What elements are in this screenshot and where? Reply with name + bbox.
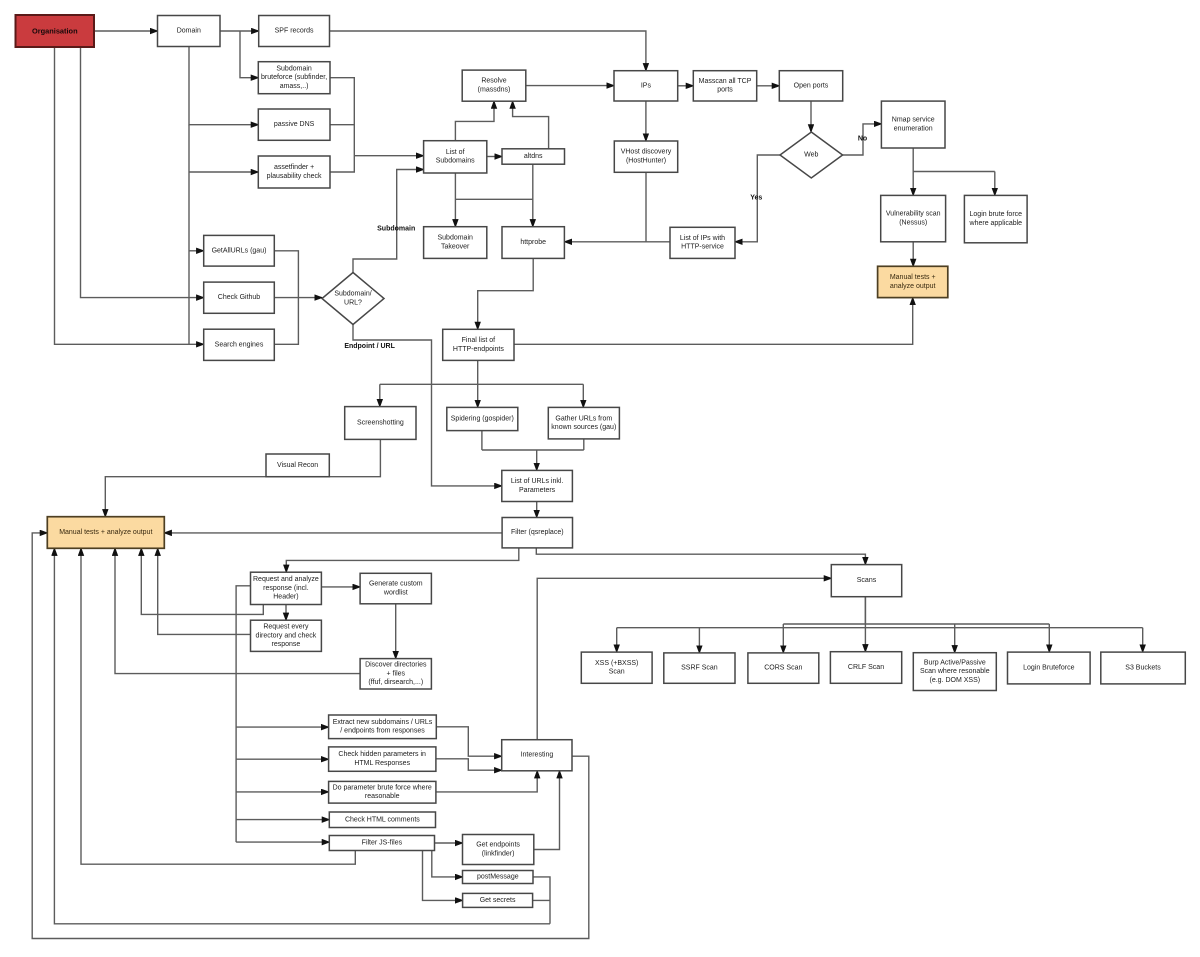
- edge Organisation to Check Github: [81, 47, 204, 298]
- box Discover directories: [360, 659, 431, 689]
- svg-text:Filter JS-files: Filter JS-files: [362, 840, 403, 847]
- box Check HTML comments: [329, 812, 435, 828]
- box Spidering: [447, 407, 518, 430]
- svg-text:Interesting: Interesting: [521, 752, 554, 759]
- wire Nmap split horizontal: [913, 171, 995, 173]
- edge IPs to VHost discovery: [645, 101, 647, 141]
- edge Scans to CRLF: [864, 628, 866, 652]
- box SSRF Scan: [664, 653, 735, 683]
- wire Final list down: [477, 360, 479, 384]
- edge Request every directory to Manual tests left: [158, 548, 251, 634]
- svg-text:Vulnerability scan: Vulnerability scan: [886, 211, 941, 218]
- box Request every directory: [251, 620, 322, 651]
- box Open ports: [779, 71, 842, 101]
- box Subdomain bruteforce: [258, 62, 330, 94]
- edge Interesting to Scans: [537, 578, 831, 739]
- edge Domain to GetAllURLs: [189, 250, 204, 252]
- box Filter JS-files: [329, 836, 434, 851]
- wire Final list bracket: [380, 383, 584, 385]
- svg-text:GetAllURLs (gau): GetAllURLs (gau): [212, 247, 267, 254]
- edge Subdomain branch to List of Subdomains: [353, 170, 424, 273]
- edge Do parameter to Interesting: [436, 771, 537, 792]
- svg-text:Organisation: Organisation: [32, 27, 78, 36]
- svg-text:Subdomains: Subdomains: [436, 158, 475, 165]
- svg-text:Visual Recon: Visual Recon: [277, 462, 318, 469]
- svg-text:Domain: Domain: [177, 28, 201, 35]
- svg-text:Manual tests +: Manual tests +: [890, 274, 936, 281]
- svg-text:Spidering (gospider): Spidering (gospider): [451, 416, 514, 423]
- edge Request-analyze to Generate wordlist: [321, 586, 360, 588]
- box Gather URLs: [548, 407, 619, 439]
- edge fan to Extract new subdomains: [236, 726, 329, 728]
- svg-text:HTTP-endpoints: HTTP-endpoints: [453, 346, 504, 353]
- svg-text:+ files: + files: [387, 670, 406, 677]
- svg-text:(ffuf, dirsearch,...): (ffuf, dirsearch,...): [368, 679, 423, 686]
- svg-text:Request every: Request every: [263, 624, 309, 631]
- box passive DNS: [258, 109, 330, 140]
- svg-text:SSRF Scan: SSRF Scan: [681, 665, 718, 672]
- edge Subdomain/URL to List of URLs (Endpoint): [353, 325, 502, 486]
- wire Gather join: [583, 439, 585, 450]
- edge Request-analyze to Manual tests left: [141, 548, 263, 614]
- edge altdns to httprobe: [532, 164, 534, 227]
- edge Discover directories to Manual tests left: [115, 548, 360, 673]
- box Subdomain Takeover: [424, 227, 487, 259]
- svg-text:Check Github: Check Github: [218, 294, 261, 301]
- wire List of Subdomains to altdns-line join: [455, 198, 532, 200]
- edge fan to Check HTML comments: [236, 819, 329, 821]
- svg-text:(Nessus): (Nessus): [899, 220, 927, 227]
- svg-text:where applicable: where applicable: [969, 220, 1023, 227]
- svg-text:URL?: URL?: [344, 299, 362, 306]
- svg-text:response: response: [272, 641, 301, 648]
- box Get endpoints linkfinder: [463, 835, 534, 865]
- svg-text:Check HTML comments: Check HTML comments: [345, 816, 420, 823]
- svg-text:amass,..): amass,..): [280, 83, 309, 90]
- svg-text:List of IPs with: List of IPs with: [680, 235, 725, 242]
- svg-text:Discover directories: Discover directories: [365, 662, 427, 669]
- wire Scans upper link: [864, 597, 866, 624]
- edge Resolve to IPs: [526, 85, 614, 87]
- svg-text:(e.g. DOM XSS): (e.g. DOM XSS): [930, 677, 981, 684]
- edge Filter JS-files to Get secrets: [423, 851, 463, 901]
- svg-text:Masscan all TCP: Masscan all TCP: [699, 78, 752, 85]
- svg-text:httprobe: httprobe: [520, 239, 546, 246]
- edge Filter JS-files to Get endpoints: [435, 842, 463, 844]
- edge IPs to Masscan: [678, 85, 694, 87]
- svg-text:Web: Web: [804, 152, 818, 159]
- edge List of IPs to httprobe: [564, 241, 670, 243]
- svg-text:Parameters: Parameters: [519, 487, 556, 494]
- wire Get secrets join: [533, 899, 550, 901]
- edge fan to Filter JS-files: [236, 841, 329, 843]
- edge Masscan to Open ports: [757, 85, 780, 87]
- edge Web to List of IPs (Yes): [735, 155, 780, 242]
- svg-text:passive DNS: passive DNS: [274, 121, 315, 128]
- edge Domain to passive DNS: [189, 47, 258, 125]
- box CRLF Scan: [830, 652, 901, 684]
- box Screenshotting: [345, 407, 416, 440]
- edge to List of URLs: [536, 450, 538, 470]
- svg-text:postMessage: postMessage: [477, 874, 519, 881]
- edge bracket to List of Subdomains: [354, 155, 423, 157]
- svg-text:Login brute force: Login brute force: [970, 211, 1023, 218]
- edge List of URLs to Filter: [536, 502, 538, 518]
- edge Domain to assetfinder: [189, 171, 258, 173]
- edge Scans to CORS: [782, 624, 784, 653]
- svg-text:CRLF Scan: CRLF Scan: [848, 664, 884, 671]
- edge Filter JS-files to postMessage: [432, 851, 463, 877]
- svg-text:directory and check: directory and check: [256, 632, 317, 639]
- svg-text:List of: List of: [446, 149, 465, 156]
- edge List of Subdomains to Resolve: [455, 101, 494, 141]
- svg-text:altdns: altdns: [524, 153, 543, 160]
- edge Organisation to Search engines: [55, 47, 204, 344]
- edge Scans to Login Bruteforce: [1048, 624, 1050, 652]
- svg-text:No: No: [858, 136, 867, 143]
- svg-text:Subdomain: Subdomain: [276, 65, 312, 72]
- edge Final list to Spidering: [477, 384, 479, 407]
- edge Final list to Screenshotting: [379, 384, 381, 406]
- edge fan to Do parameter brute force: [236, 791, 329, 793]
- box postMessage: [463, 871, 534, 884]
- box Extract new subdomains: [329, 715, 437, 739]
- edge Request-analyze to Request every directory: [285, 605, 287, 621]
- box Generate custom wordlist: [360, 573, 431, 604]
- edge Organisation to Domain: [94, 30, 158, 32]
- svg-text:plausability check: plausability check: [267, 173, 322, 180]
- svg-text:Subdomain: Subdomain: [377, 226, 415, 233]
- box Check Github: [204, 282, 275, 313]
- svg-text:assetfinder +: assetfinder +: [274, 164, 314, 171]
- svg-text:Scans: Scans: [857, 577, 877, 584]
- edge List of Subdomains to altdns: [487, 156, 502, 158]
- edge Web to Nmap (No): [843, 124, 882, 155]
- svg-text:/ endpoints from responses: / endpoints from responses: [340, 728, 425, 735]
- wire VHost down join: [645, 172, 647, 242]
- box Masscan: [693, 71, 756, 101]
- box SPF records: [259, 16, 330, 47]
- edge Check hidden to Interesting: [436, 759, 502, 770]
- box Scans: [831, 565, 901, 597]
- edge Filter to Request and analyze: [286, 548, 519, 572]
- edge altdns to Resolve: [513, 101, 549, 149]
- edge Generate wordlist to Discover directories: [395, 604, 397, 659]
- box Final list of HTTP-endpoints: [443, 329, 514, 360]
- svg-text:Burp Active/Passive: Burp Active/Passive: [924, 659, 986, 666]
- wire Spidering-Gather bracket: [482, 449, 584, 451]
- wire passive DNS join: [330, 124, 354, 126]
- svg-text:IPs: IPs: [641, 82, 652, 89]
- svg-text:Get secrets: Get secrets: [480, 897, 516, 904]
- box CORS Scan: [748, 653, 819, 683]
- box altdns: [502, 149, 565, 164]
- svg-text:Manual tests + analyze output: Manual tests + analyze output: [59, 529, 152, 536]
- svg-text:Open ports: Open ports: [794, 82, 829, 89]
- box Organisation: [16, 15, 95, 47]
- edge fan to Check hidden parameters: [236, 758, 329, 760]
- edge httprobe to Final list: [478, 258, 534, 329]
- box IPs: [614, 71, 678, 101]
- svg-text:Scan where resonable: Scan where resonable: [920, 668, 990, 675]
- box Manual tests left: [47, 517, 164, 549]
- edge Check Github to Subdomain/URL decision: [274, 297, 322, 299]
- svg-text:Endpoint / URL: Endpoint / URL: [344, 343, 395, 350]
- box Vulnerability scan: [881, 195, 946, 241]
- box Resolve: [462, 70, 526, 101]
- svg-text:Final list of: Final list of: [462, 337, 496, 344]
- edge Screenshotting to Manual tests left (Visual Recon): [105, 439, 380, 516]
- svg-text:CORS Scan: CORS Scan: [764, 665, 802, 672]
- edge Scans to XSS: [616, 628, 618, 652]
- svg-text:Screenshotting: Screenshotting: [357, 420, 404, 427]
- wire subdomain-tools bracket: [330, 78, 354, 172]
- box httprobe: [502, 227, 564, 259]
- svg-text:Scan: Scan: [609, 669, 625, 676]
- box Visual Recon: [266, 454, 329, 477]
- edge Filter JS-files to Manual tests left: [81, 548, 355, 864]
- wire Request-analyze fan trunk: [236, 586, 250, 842]
- edge Final list to Gather URLs: [582, 384, 584, 407]
- svg-text:Login Bruteforce: Login Bruteforce: [1023, 665, 1074, 672]
- svg-text:HTTP-service: HTTP-service: [681, 244, 724, 251]
- box Manual tests right: [878, 266, 948, 297]
- wire GetAllURLs bracket: [274, 251, 298, 344]
- svg-text:known sources (gau): known sources (gau): [551, 424, 616, 431]
- decision Web decision: [780, 132, 843, 178]
- svg-text:List of URLs inkl.: List of URLs inkl.: [511, 478, 564, 485]
- edge Scans to SSRF: [698, 628, 700, 653]
- box GetAllURLs: [204, 235, 275, 266]
- box XSS Scan: [581, 652, 652, 683]
- box S3 Buckets: [1101, 652, 1186, 684]
- svg-text:HTML Responses: HTML Responses: [354, 760, 410, 767]
- box Request and analyze response: [251, 572, 322, 604]
- box Search engines: [204, 329, 275, 360]
- box List of IPs with HTTP-service: [670, 227, 735, 258]
- svg-text:Gather URLs from: Gather URLs from: [555, 415, 612, 422]
- edge SPF records to IPs: [330, 31, 646, 71]
- wire Spidering join: [481, 431, 483, 450]
- box Do parameter brute force: [329, 781, 436, 803]
- svg-text:Filter (qsreplace): Filter (qsreplace): [511, 529, 564, 536]
- edge Vulnerability scan to Manual tests right: [912, 242, 914, 266]
- wire Domain trunk: [188, 125, 190, 345]
- svg-text:(linkfinder): (linkfinder): [482, 850, 515, 857]
- edge Nmap to Login brute force: [994, 172, 996, 196]
- edge Scans to S3 Buckets: [1142, 628, 1144, 652]
- edge Extract to Interesting: [436, 727, 501, 756]
- box Login brute force: [964, 195, 1027, 242]
- wire Nmap split: [912, 148, 914, 172]
- svg-text:Takeover: Takeover: [441, 243, 470, 250]
- edge Domain to SPF records: [220, 30, 259, 32]
- svg-text:Nmap service: Nmap service: [892, 117, 935, 124]
- edge Interesting loop to Manual tests left: [32, 533, 589, 939]
- edge Filter to Manual tests left: [164, 532, 502, 534]
- edge Scans to Burp: [954, 624, 956, 653]
- svg-text:Extract new subdomains / URLs: Extract new subdomains / URLs: [333, 719, 433, 726]
- svg-text:VHost discovery: VHost discovery: [621, 149, 672, 156]
- svg-text:Request and analyze: Request and analyze: [253, 576, 319, 583]
- box Check hidden parameters: [329, 747, 436, 771]
- svg-text:(massdns): (massdns): [478, 87, 511, 94]
- svg-text:Yes: Yes: [750, 194, 762, 201]
- box Get secrets: [463, 893, 533, 907]
- edge postMessage+secrets loop to Manual tests left: [54, 548, 550, 924]
- svg-text:(HostHunter): (HostHunter): [626, 158, 666, 165]
- svg-text:SPF records: SPF records: [275, 28, 314, 35]
- svg-text:ports: ports: [717, 87, 733, 94]
- box Nmap service enumeration: [881, 101, 945, 148]
- box Filter qsreplace: [502, 518, 572, 548]
- box List of URLs inkl Parameters: [502, 470, 573, 501]
- svg-text:XSS (+BXSS): XSS (+BXSS): [595, 660, 638, 667]
- svg-text:response (incl.: response (incl.: [263, 585, 309, 592]
- svg-text:Subdomain/: Subdomain/: [334, 291, 371, 298]
- svg-text:enumeration: enumeration: [894, 125, 933, 132]
- svg-text:Get endpoints: Get endpoints: [476, 842, 520, 849]
- svg-text:Generate custom: Generate custom: [369, 581, 423, 588]
- svg-text:wordlist: wordlist: [383, 589, 408, 596]
- box Interesting: [502, 740, 572, 771]
- box Domain: [158, 16, 221, 47]
- svg-text:Resolve: Resolve: [481, 78, 506, 85]
- svg-text:Search engines: Search engines: [215, 341, 264, 348]
- edge Domain to Subdomain bruteforce: [240, 31, 258, 78]
- svg-text:Check hidden parameters in: Check hidden parameters in: [338, 751, 426, 758]
- svg-text:analyze output: analyze output: [890, 283, 936, 290]
- box List of Subdomains: [424, 141, 487, 173]
- box assetfinder: [258, 156, 330, 188]
- svg-text:Header): Header): [273, 594, 298, 601]
- edge Get endpoints to Interesting: [534, 771, 560, 850]
- wire postMessage join: [533, 877, 550, 924]
- svg-text:S3 Buckets: S3 Buckets: [1125, 665, 1161, 672]
- svg-text:bruteforce (subfinder,: bruteforce (subfinder,: [261, 74, 327, 81]
- svg-text:Do parameter brute force where: Do parameter brute force where: [333, 784, 432, 791]
- edge Filter to Scans: [536, 548, 865, 565]
- decision Subdomain/URL decision: [322, 273, 384, 325]
- edge List of Subdomains to Subdomain Takeover: [454, 173, 456, 227]
- edge Open ports to Web: [810, 101, 812, 132]
- edge Nmap to Vulnerability scan: [912, 172, 914, 196]
- box VHost discovery: [614, 141, 677, 172]
- wire Scans down: [864, 597, 866, 628]
- edge Final list to Manual tests right: [514, 298, 913, 345]
- box Login Bruteforce: [1008, 652, 1091, 684]
- svg-text:reasonable: reasonable: [365, 793, 400, 800]
- svg-text:Subdomain: Subdomain: [437, 235, 473, 242]
- wire Scans bracket upper: [783, 623, 1049, 625]
- box Burp Scan: [913, 653, 996, 691]
- wire Scans bracket lower: [617, 627, 1143, 629]
